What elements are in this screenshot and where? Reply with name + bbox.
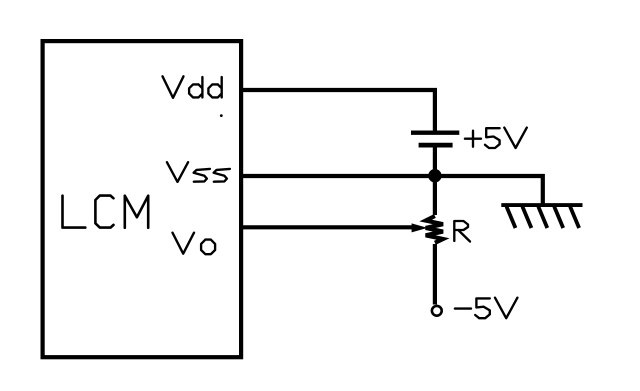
resistor R zigzag [426,216,443,243]
ground hatch 1 [507,207,516,229]
node junction dot [428,169,441,182]
ground hatch 2 [522,207,531,229]
wiper arrowhead [412,223,428,232]
battery BT1 negative plate [419,143,453,148]
ground hatch 5 [570,207,579,229]
label -5V [455,298,518,319]
ground hatch 4 [554,207,563,229]
pin label Vss [167,162,230,182]
label +5V [465,128,527,148]
pin label Vo [173,233,216,255]
wire resistor to -5V terminal [433,244,437,305]
wire Vdd pin to battery top [242,90,435,132]
label LCM [63,196,149,228]
ground bar [501,203,582,207]
wire Vss pin to ground corner [242,176,543,205]
stray dot artifact [220,114,223,117]
ground hatch 3 [538,207,547,229]
wire battery to junction [433,145,437,176]
battery BT1 positive plate [411,130,459,134]
wire Vo pin to wiper arrow [242,225,412,229]
terminal open circle [432,306,442,316]
LCM module box U1 [43,41,242,357]
label R [454,221,470,242]
pin label Vdd [163,76,222,98]
wire junction to resistor [433,182,437,215]
